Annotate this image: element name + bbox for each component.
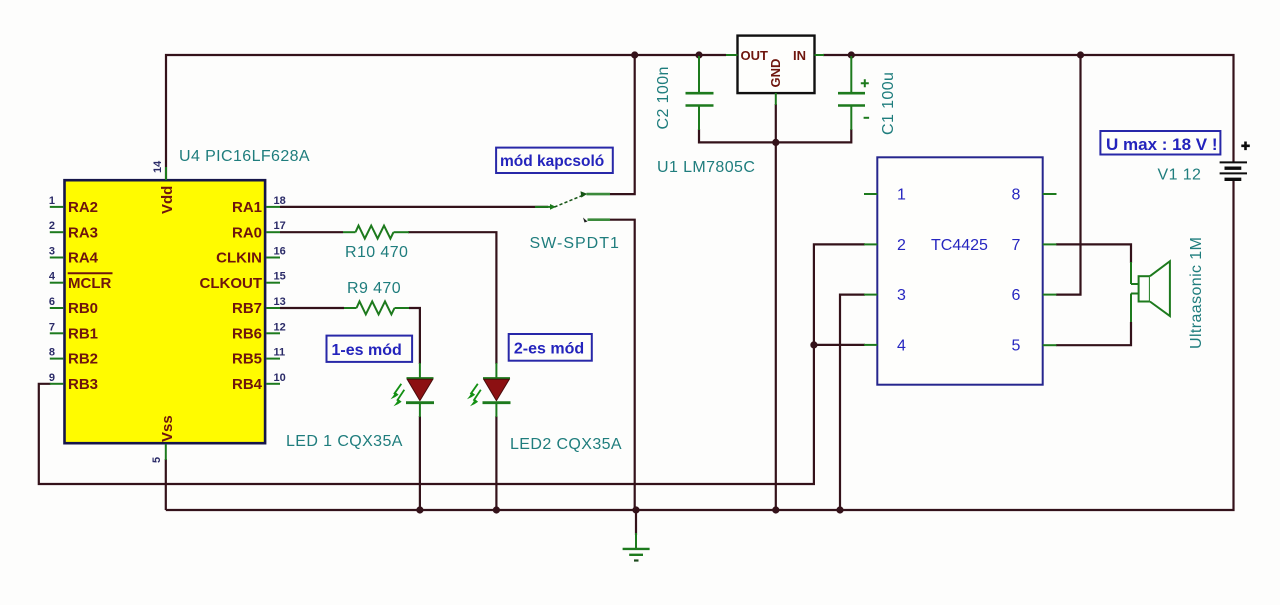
node junction ground rail at LED1 [416, 506, 423, 513]
LED D2 (LED2 CQX35A) [467, 363, 511, 417]
svg-text:OUT: OUT [741, 48, 769, 63]
wire TC4425 pin 3 to ground rail [840, 295, 865, 510]
TC4425 pin 6 stub [1012, 287, 1057, 304]
svg-text:12: 12 [274, 321, 286, 333]
svg-text:4: 4 [897, 338, 906, 355]
U4 pin name MCLR with overline [68, 273, 113, 292]
svg-text:2-es mód: 2-es mód [514, 341, 584, 358]
svg-text:11: 11 [274, 347, 286, 359]
svg-text:RB5: RB5 [232, 351, 262, 368]
svg-text:RB2: RB2 [68, 351, 98, 368]
U4 pin 5 stub Vss [151, 444, 166, 463]
wire Vdd riser and top rail to U1 OUT [166, 55, 726, 179]
switch SW-SPDT1 [535, 191, 610, 222]
annotation box 2-es mód [509, 334, 592, 361]
TC4425 pin 8 stub [1012, 187, 1057, 204]
U1 OUT pin stub [726, 54, 738, 56]
svg-text:8: 8 [49, 347, 55, 359]
LED D1 (LED 1 CQX35A) [391, 363, 435, 417]
svg-text:R9 470: R9 470 [347, 280, 401, 297]
regulator U1 LM7805C body [738, 36, 815, 94]
svg-text:RB0: RB0 [68, 300, 98, 317]
svg-text:4: 4 [49, 271, 56, 283]
wire top rail U1 IN to battery top [823, 55, 1234, 162]
svg-text:RB7: RB7 [232, 300, 262, 317]
svg-text:LED2 CQX35A: LED2 CQX35A [510, 436, 622, 453]
svg-text:10: 10 [274, 372, 286, 384]
svg-text:7: 7 [1012, 237, 1021, 254]
resistor R10 [343, 226, 409, 239]
svg-text:CLKIN: CLKIN [216, 250, 262, 267]
svg-text:3: 3 [49, 246, 55, 258]
svg-text:R10 470: R10 470 [345, 244, 408, 261]
op-amp U4 PIC16LF628A body [65, 180, 266, 443]
wire switch bottom throw to ground rail [610, 220, 635, 510]
wire RB3 to TC4425 pins 2,4 [39, 244, 865, 484]
U4 pin 3 stub [49, 246, 63, 258]
U1 GND pin stub [775, 93, 777, 105]
svg-text:18: 18 [274, 195, 286, 207]
node junction pin2/pin4 [810, 341, 817, 348]
svg-text:RA3: RA3 [68, 224, 98, 241]
wire ground symbol riser [635, 510, 637, 535]
wire LED2 cathode to ground rail [495, 416, 497, 510]
wire TC4425 pin 7 to speaker top [1056, 244, 1131, 263]
annotation box U max [1100, 131, 1220, 155]
svg-text:mód kapcsoló: mód kapcsoló [500, 153, 604, 170]
svg-text:GND: GND [768, 59, 783, 88]
svg-text:1-es mód: 1-es mód [332, 342, 402, 359]
battery V1 [1220, 142, 1250, 180]
op-amp U2 TC4425 body [877, 157, 1042, 384]
node junction ground rail at ground symbol [632, 506, 639, 513]
TC4425 pin 1 stub [864, 187, 906, 204]
TC4425 pin 2 stub [864, 237, 906, 254]
node junction top rail at switch riser [631, 51, 638, 58]
U4 pin 12 stub [266, 321, 285, 333]
wire battery bottom to ground rail [166, 180, 1234, 510]
wire TC4425 pin 6 to top rail [1056, 55, 1081, 295]
U4 pin 17 stub [266, 220, 285, 232]
TC4425 pin 7 stub [1012, 237, 1057, 254]
wire R9 to LED1 anode [409, 308, 420, 364]
svg-text:CLKOUT: CLKOUT [200, 275, 263, 292]
svg-text:RA0: RA0 [232, 224, 262, 241]
svg-text:MCLR: MCLR [68, 275, 111, 292]
svg-text:6: 6 [49, 296, 55, 308]
U4 pin 14 stub Vdd [152, 160, 166, 180]
svg-text:Ultraasonic 1M: Ultraasonic 1M [1188, 237, 1205, 349]
resistor R9 [344, 301, 409, 314]
svg-text:9: 9 [49, 372, 55, 384]
svg-text:5: 5 [1012, 338, 1021, 355]
svg-text:Vdd: Vdd [159, 186, 176, 214]
U4 pin 6 stub [49, 296, 63, 308]
wire LED1 cathode to ground rail [419, 416, 421, 510]
svg-text:U4 PIC16LF628A: U4 PIC16LF628A [179, 148, 310, 165]
svg-text:U1 LM7805C: U1 LM7805C [657, 159, 755, 176]
wire RB7 to R9 [280, 307, 344, 309]
U4 pin 8 stub [49, 347, 63, 359]
svg-text:17: 17 [274, 220, 286, 232]
node junction top rail at C2 [695, 51, 702, 58]
svg-text:3: 3 [897, 287, 906, 304]
svg-text:V1 12: V1 12 [1158, 167, 1202, 184]
wire switch top throw to top rail [610, 55, 635, 194]
svg-text:RA1: RA1 [232, 199, 262, 216]
svg-text:C1 100u: C1 100u [880, 72, 897, 135]
svg-text:SW-SPDT1: SW-SPDT1 [530, 235, 620, 252]
capacitor C2 100n [686, 56, 714, 130]
svg-text:15: 15 [274, 271, 286, 283]
svg-text:13: 13 [274, 296, 286, 308]
node junction top rail at pin6 riser [1077, 51, 1084, 58]
svg-text:U max : 18 V !: U max : 18 V ! [1106, 135, 1218, 154]
wire U1 GND riser to ground rail [775, 104, 777, 510]
U4 pin 2 stub [49, 220, 63, 232]
node junction ground rail at U1 GND riser [772, 506, 779, 513]
svg-text:TC4425: TC4425 [931, 237, 988, 254]
svg-text:LED 1 CQX35A: LED 1 CQX35A [286, 433, 403, 450]
U4 pin 9 stub [49, 372, 63, 384]
U4 pin 10 stub [266, 372, 285, 384]
TC4425 pin 3 stub [864, 287, 906, 304]
node junction ground rail at pin3 riser [836, 506, 843, 513]
annotation box 1-es mód [327, 336, 413, 362]
svg-text:C2 100n: C2 100n [655, 66, 672, 129]
wire RA0 to R10 [280, 231, 343, 233]
svg-text:RB6: RB6 [232, 325, 262, 342]
svg-text:5: 5 [151, 457, 163, 463]
wire capacitor bottom rail C2 to C1 [699, 129, 851, 142]
svg-text:14: 14 [152, 160, 164, 173]
svg-text:RA2: RA2 [68, 199, 98, 216]
svg-text:2: 2 [897, 237, 906, 254]
wire RA1 to switch common [280, 206, 548, 208]
U4 pin 4 stub [49, 271, 63, 283]
U4 pin 15 stub [266, 271, 285, 283]
wire R10 to LED2 anode [408, 232, 496, 364]
svg-text:RA4: RA4 [68, 250, 99, 267]
speaker LS1 Ultraasonic 1M [1131, 261, 1170, 322]
svg-text:1: 1 [49, 195, 55, 207]
ground symbol [623, 533, 650, 561]
svg-text:8: 8 [1012, 187, 1021, 204]
node junction top rail at C1 [848, 51, 855, 58]
svg-text:6: 6 [1012, 287, 1021, 304]
U1 IN pin stub [815, 54, 825, 56]
svg-text:Vss: Vss [159, 415, 176, 442]
svg-text:2: 2 [49, 220, 55, 232]
wire TC4425 pin 4 branch [814, 344, 865, 346]
TC4425 pin 4 stub [864, 338, 906, 355]
U4 pin 16 stub [266, 246, 285, 258]
node junction ground rail at LED2 [493, 506, 500, 513]
svg-text:RB1: RB1 [68, 325, 98, 342]
wire Vss riser [165, 459, 167, 510]
svg-text:RB3: RB3 [68, 376, 98, 393]
svg-text:16: 16 [274, 246, 286, 258]
U4 pin 7 stub [49, 321, 63, 333]
svg-text:1: 1 [897, 187, 906, 204]
svg-text:7: 7 [49, 321, 55, 333]
wire TC4425 pin 5 to speaker bottom [1056, 322, 1131, 345]
svg-text:RB4: RB4 [232, 376, 263, 393]
U4 pin 1 stub [49, 195, 63, 207]
node junction capacitor bottom rail at U1 GND [772, 139, 779, 146]
annotation box mód kapcsoló [496, 148, 613, 173]
capacitor C1 100u [838, 56, 869, 130]
U4 pin 13 stub [266, 296, 285, 308]
U4 pin 18 stub [266, 195, 285, 207]
TC4425 pin 5 stub [1012, 338, 1057, 355]
svg-text:IN: IN [793, 48, 806, 63]
U4 pin 11 stub [266, 347, 285, 359]
